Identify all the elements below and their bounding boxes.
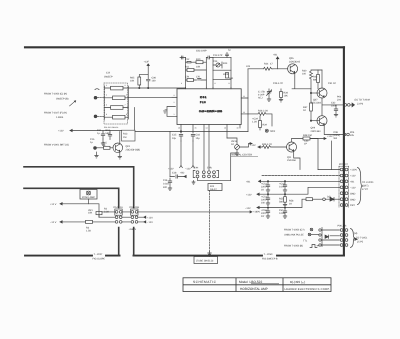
svg-text:150: 150 — [308, 134, 313, 137]
wire cluster to riser — [198, 153, 238, 181]
svg-text:+12V: +12V — [327, 135, 333, 138]
svg-text:680: 680 — [313, 79, 318, 82]
capacitor C32 — [334, 105, 338, 117]
switch S01 — [70, 101, 76, 106]
wire strip row2 — [262, 175, 340, 177]
resistor R array row1 — [105, 86, 129, 90]
svg-text:560: 560 — [279, 201, 284, 204]
svg-text:5: 5 — [203, 96, 204, 99]
svg-text:13: 13 — [224, 127, 226, 130]
arrow +12V — [180, 166, 183, 168]
svg-text:LEADER ELECTRONICS CORP.: LEADER ELECTRONICS CORP. — [285, 288, 331, 291]
svg-text:R29: R29 — [263, 124, 268, 127]
svg-text:−12 V: −12 V — [50, 221, 57, 224]
wire base rail — [248, 68, 264, 70]
connector out D — [344, 103, 355, 107]
capacitor C18 series — [170, 175, 184, 178]
cluster B left rail — [212, 57, 214, 87]
transistor Q07 — [311, 88, 327, 98]
wire Q09 emitter out — [324, 125, 343, 135]
svg-text:J7 P7: J7 P7 — [362, 188, 369, 191]
resistor R3 — [86, 220, 93, 223]
svg-text:1P: 1P — [333, 82, 336, 85]
svg-text:100P: 100P — [331, 105, 337, 108]
svg-text:SWEEP (B): SWEEP (B) — [56, 98, 69, 101]
resistor R10 — [196, 61, 203, 64]
resistor R30 zig — [310, 70, 323, 89]
wire: node row to cluster A — [128, 87, 185, 89]
svg-text:+B2: +B2 — [180, 172, 185, 175]
svg-text:FROM V-2001 BRT (G): FROM V-2001 BRT (G) — [44, 143, 69, 146]
trimmer VR1 — [96, 212, 102, 215]
svg-text:FIG SLOPE: FIG SLOPE — [93, 257, 106, 260]
svg-text:SWEEP: SWEEP — [104, 76, 113, 79]
svg-text:2: 2 — [106, 84, 107, 87]
wire bus +B1 row — [259, 180, 341, 182]
transistor Q05 — [288, 64, 298, 74]
svg-text:FROM T-2050 (B): FROM T-2050 (B) — [284, 245, 303, 248]
connector strip P2/J2 — [131, 209, 138, 223]
svg-text:9: 9 — [229, 82, 230, 85]
capacitor C16 — [191, 135, 195, 142]
svg-text:P07 J07: P07 J07 — [339, 163, 348, 166]
svg-text:1: 1 — [174, 113, 175, 116]
wire Q05 collector down — [292, 73, 311, 89]
resistor R48 — [303, 137, 310, 140]
svg-text:8: 8 — [106, 113, 107, 116]
svg-text:P06 J06: P06 J06 — [338, 225, 347, 228]
capacitor C11 — [108, 131, 112, 140]
strip pins bottom — [340, 229, 348, 247]
transistor Q01 — [113, 143, 123, 153]
wire strip row1 — [318, 169, 340, 171]
connector strip P1/J1 — [115, 209, 122, 223]
capacitor col C56 — [266, 208, 270, 219]
svg-text:1μ: 1μ — [228, 49, 231, 52]
svg-text:J5 P5: J5 P5 — [357, 241, 364, 244]
svg-text:1μ: 1μ — [97, 132, 100, 135]
svg-text:10K: 10K — [88, 212, 93, 215]
frame right line — [343, 47, 345, 255]
svg-text:1.2K: 1.2K — [252, 121, 257, 124]
bottom connector cluster — [308, 228, 319, 236]
svg-text:56K: 56K — [106, 132, 111, 135]
bracket T-2051 — [351, 229, 355, 248]
trimmer C14 — [213, 62, 222, 68]
svg-text:−12V: −12V — [245, 207, 251, 210]
wire Q01 emitter to ground — [118, 152, 122, 159]
svg-text:J05: J05 — [350, 134, 355, 137]
svg-text:R10: R10 — [196, 58, 201, 61]
svg-text:+120V: +120V — [350, 169, 357, 172]
wire +12V row — [60, 204, 99, 218]
wire VR13 wiper to +12V — [239, 144, 252, 148]
svg-text:C12: C12 — [185, 58, 190, 61]
svg-text:CRT: CRT — [350, 204, 355, 207]
wire lamp to rail — [88, 199, 90, 204]
svg-text:16: 16 — [178, 127, 180, 130]
wire Q07 collector up — [321, 70, 323, 88]
resistor R42 — [317, 70, 319, 89]
svg-text:C-10 = 120V/4 = 10%: C-10 = 120V/4 = 10% — [199, 110, 223, 113]
capacitor C03 bridge — [206, 56, 213, 59]
svg-text:14: 14 — [206, 127, 208, 130]
svg-text:+B1: +B1 — [273, 54, 278, 57]
+B node top — [139, 64, 149, 77]
CRT strip pins — [339, 166, 349, 207]
wire Q05 area : +B arrow — [276, 57, 279, 69]
resistor R37 — [310, 103, 313, 111]
svg-text:+12F: +12F — [144, 61, 150, 64]
svg-text:1W: 1W — [261, 202, 265, 205]
wire R30 node down — [310, 89, 312, 121]
svg-text:1.REG: 1.REG — [56, 116, 63, 119]
svg-text:R46 4.7K: R46 4.7K — [262, 143, 272, 146]
svg-text:UNBLANK PULSE: UNBLANK PULSE — [284, 234, 304, 237]
svg-text:−12V: −12V — [185, 168, 191, 171]
svg-text:+ 12V: + 12V — [147, 216, 154, 219]
svg-text:1P: 1P — [304, 143, 307, 146]
wire: array bus to IC — [128, 86, 177, 119]
junction dots buses — [267, 181, 268, 182]
resistor R11 — [187, 69, 194, 72]
svg-text:D51: D51 — [327, 196, 332, 199]
svg-text:AS-5?: AS-5? — [210, 188, 217, 191]
svg-text:P1B J1B: P1B J1B — [130, 206, 140, 209]
svg-text:HORIZONTAL AMP: HORIZONTAL AMP — [240, 287, 268, 291]
inner shield line A — [24, 167, 134, 256]
svg-text:0.01: 0.01 — [279, 186, 284, 189]
svg-text:5: 5 — [126, 94, 127, 97]
svg-text:+12V: +12V — [246, 194, 252, 197]
svg-text:2SC458-O(B): 2SC458-O(B) — [126, 149, 141, 152]
svg-text:1μ: 1μ — [90, 141, 93, 144]
svg-text:2SC458: 2SC458 — [287, 159, 296, 162]
svg-text:1K: 1K — [231, 143, 234, 146]
svg-text:4: 4 — [106, 94, 107, 97]
svg-text:+B1: +B1 — [246, 181, 251, 184]
svg-text:7: 7 — [125, 103, 126, 106]
svg-text:(H): (H) — [354, 232, 358, 235]
cluster box parts — [319, 228, 340, 247]
ground cluster — [192, 181, 195, 185]
svg-text:B(-)499 (₅⁠ ₁): B(-)499 (₅⁠ ₁) — [290, 280, 305, 284]
svg-text:4.7P: 4.7P — [278, 82, 283, 85]
svg-text:1K: 1K — [289, 203, 292, 206]
svg-text:8: 8 — [215, 82, 216, 85]
wire vertical x209 lower — [209, 124, 211, 126]
wire array to R13 — [134, 108, 136, 131]
svg-text:+12V: +12V — [168, 168, 174, 171]
svg-text:SCHEMATIC: SCHEMATIC — [193, 280, 217, 284]
svg-text:T - 2027: T - 2027 — [94, 253, 104, 256]
svg-text:T - 2050: T - 2050 — [264, 253, 274, 256]
svg-text:W4: W4 — [334, 137, 338, 140]
svg-text:10K: 10K — [196, 66, 201, 69]
capacitor col C52 — [266, 181, 270, 192]
svg-text:− 12V: − 12V — [147, 221, 154, 224]
wire unblank riser — [331, 141, 333, 170]
arrow -12V — [192, 166, 195, 168]
svg-text:1K: 1K — [103, 144, 106, 147]
resistor R14 — [226, 73, 229, 79]
wire rows to strip — [99, 212, 115, 217]
svg-text:R11: R11 — [185, 66, 190, 69]
wire totem mid node — [322, 98, 343, 116]
svg-text:1.5K: 1.5K — [86, 229, 91, 232]
svg-text:2: 2 — [174, 101, 175, 104]
resistor R24 zig — [264, 67, 274, 70]
svg-text:1K: 1K — [261, 189, 264, 192]
capacitor C05 stub — [180, 56, 186, 59]
svg-text:10: 10 — [237, 127, 239, 130]
svg-text:R26 2.2K: R26 2.2K — [258, 110, 268, 113]
svg-text:E?R: E?R — [207, 167, 212, 170]
svg-text:+180 V: +180 V — [129, 228, 137, 231]
bracket CRT — [358, 168, 363, 205]
svg-text:−12V: −12V — [350, 187, 356, 190]
pulse glyph — [310, 245, 317, 248]
svg-text:FROM T-2027 (F) (H): FROM T-2027 (F) (H) — [44, 111, 67, 114]
dashed line to tube shield — [209, 191, 211, 252]
wire pulse to cluster — [317, 245, 319, 247]
IC01 box — [177, 89, 241, 125]
svg-text:0.033: 0.033 — [279, 212, 286, 215]
resistor R46 zig — [258, 146, 287, 149]
capacitor C06 — [146, 75, 150, 88]
title block — [183, 278, 331, 292]
cluster A left rail — [185, 58, 187, 88]
svg-text:100: 100 — [152, 80, 157, 83]
svg-text:L03: L03 — [246, 65, 251, 68]
diode D51 — [325, 197, 340, 201]
capacitor col C54 — [266, 194, 270, 205]
svg-text:10μ: 10μ — [172, 137, 177, 140]
transistor Q09 — [310, 116, 327, 126]
svg-text:+12 V: +12 V — [50, 203, 57, 206]
capacitor col C57 — [283, 208, 287, 219]
ground left small — [95, 152, 99, 158]
svg-text:TP02: TP02 — [270, 130, 276, 133]
svg-text:2SC1364: 2SC1364 — [311, 102, 322, 105]
resistor R28 vert — [280, 92, 283, 98]
svg-text:1K: 1K — [303, 109, 306, 112]
svg-text:C.R: C.R — [106, 72, 110, 75]
svg-text:FROM T-2050 (C) (H): FROM T-2050 (C) (H) — [44, 93, 67, 96]
svg-text:C18: C18 — [172, 172, 177, 175]
test point TP — [265, 129, 268, 132]
capacitor C12 — [186, 62, 194, 63]
capacitor C31 — [101, 131, 105, 140]
wire Q11 collector net — [292, 139, 319, 170]
svg-text:GND: GND — [350, 192, 356, 195]
IC left pins — [172, 96, 177, 98]
capacitor C15 — [179, 135, 183, 142]
frame bottom line segments — [25, 255, 344, 257]
wire +12V feed left — [70, 130, 122, 132]
svg-text:+180V: +180V — [253, 211, 260, 214]
resistor R array row2 — [105, 96, 129, 100]
svg-text:C13 47P: C13 47P — [213, 54, 223, 57]
resistor array dashed box — [104, 83, 128, 124]
svg-text:P 1 0: P 1 0 — [200, 101, 206, 104]
trimmer cap C17B — [267, 89, 272, 102]
svg-text:27K: 27K — [185, 76, 190, 79]
wire Q11 emitter — [294, 151, 300, 169]
svg-text:C03 100P: C03 100P — [196, 50, 207, 53]
svg-text:330K: 330K — [223, 73, 229, 76]
svg-text:3: 3 — [174, 94, 175, 97]
resistor R12 — [187, 79, 194, 82]
svg-text:4: 4 — [181, 82, 182, 85]
svg-text:J04: J04 — [337, 99, 342, 102]
inner shield line B — [24, 188, 119, 255]
connector cluster P03/J03 — [193, 171, 218, 178]
svg-text:P1A J1A: P1A J1A — [114, 206, 124, 209]
resistor R05 — [138, 77, 141, 85]
connector BRT input — [94, 147, 97, 150]
resistor R array row3 — [105, 106, 129, 110]
wire: input dashed bus — [97, 98, 104, 117]
svg-text:(TUBE SHIELD): (TUBE SHIELD) — [196, 260, 213, 263]
svg-text:11: 11 — [243, 95, 245, 98]
svg-text:10K: 10K — [284, 95, 289, 98]
svg-text:9: 9 — [126, 113, 127, 116]
wire Q01 collector — [119, 132, 121, 145]
wire -12V row — [60, 221, 86, 223]
capacitor C22 1u — [226, 53, 229, 58]
svg-text:270: 270 — [196, 76, 201, 79]
resistor col R55 — [284, 197, 287, 203]
capacitor C16b to ground — [168, 178, 172, 188]
IC right pins — [241, 98, 248, 114]
svg-text:3: 3 — [125, 84, 126, 87]
connector from T-2027 — [94, 115, 97, 118]
wires between strips — [122, 212, 131, 222]
cluster B right rail — [230, 57, 232, 87]
transistor Q11 — [287, 142, 297, 152]
svg-text:TO T-2051: TO T-2051 — [356, 237, 368, 240]
svg-text:56K: 56K — [229, 77, 234, 80]
resistor R58 — [306, 198, 313, 201]
svg-text:C?H: C?H — [194, 167, 199, 170]
svg-text:TTL: TTL — [303, 240, 308, 243]
svg-text:POSI LAMP: POSI LAMP — [82, 196, 95, 199]
wire bus +12V row — [257, 187, 340, 194]
wire: pins to supplies — [181, 141, 193, 166]
wire strip2 out — [138, 212, 250, 222]
connector from T-2050 — [94, 89, 99, 99]
svg-text:NORMAL CENTER: NORMAL CENTER — [232, 154, 253, 157]
capacitor C continuing — [198, 79, 207, 81]
wire vertical right IC — [247, 69, 249, 132]
svg-text:AEJ: AEJ — [258, 97, 263, 100]
svg-text:R24: R24 — [264, 63, 269, 66]
svg-text:+12V: +12V — [58, 130, 64, 133]
svg-text:3.3K: 3.3K — [104, 210, 109, 213]
box F04 — [208, 184, 222, 191]
svg-text:C14: C14 — [213, 60, 218, 63]
resistor R29 vert box — [259, 121, 262, 128]
svg-text:+B1: +B1 — [350, 181, 355, 184]
svg-text:GND: GND — [350, 198, 356, 201]
resistor R array row4 — [105, 115, 129, 119]
wire bus -12V row — [257, 199, 306, 207]
IC top pins — [186, 88, 231, 89]
wire long collector line — [135, 131, 248, 133]
svg-text:+12V: +12V — [350, 175, 356, 178]
IC bottom pins — [181, 125, 240, 171]
svg-text:10K: 10K — [130, 80, 135, 83]
cluster A right rail — [205, 58, 207, 88]
svg-text:+12V: +12V — [250, 144, 256, 147]
resistor R26 zig feedback — [248, 112, 272, 126]
resistor R15 — [104, 146, 111, 149]
capacitor col C42 — [283, 181, 287, 192]
trimmer VR13 — [227, 138, 237, 145]
frame top line — [25, 46, 344, 48]
wire mid vertical to cap — [169, 132, 171, 177]
svg-text:FROM T-2050 (C?): FROM T-2050 (C?) — [284, 229, 305, 232]
svg-text:J3 P3: J3 P3 — [357, 103, 364, 106]
svg-text:2SC1364: 2SC1364 — [311, 130, 322, 133]
svg-text:Model LBO-522: Model LBO-522 — [239, 280, 262, 284]
svg-text:FIG SWEEP B: FIG SWEEP B — [262, 257, 278, 260]
svg-text:R14: R14 — [223, 62, 228, 65]
svg-text:10μ: 10μ — [196, 137, 201, 140]
svg-text:(D) TO T-2049: (D) TO T-2049 — [355, 99, 371, 102]
resistor R13 module — [122, 130, 136, 141]
tube shield box — [194, 257, 218, 264]
svg-text:15: 15 — [195, 127, 197, 130]
lamp box — [80, 190, 97, 200]
svg-text:47: 47 — [270, 63, 273, 66]
svg-text:2SA563-O: 2SA563-O — [289, 61, 300, 64]
connector out E — [343, 133, 349, 136]
svg-text:12: 12 — [243, 111, 245, 114]
svg-text:DY: DY — [261, 215, 265, 218]
svg-text:400: 400 — [163, 186, 168, 189]
svg-text:1M: 1M — [123, 136, 126, 139]
svg-text:100: 100 — [302, 73, 307, 76]
svg-text:6: 6 — [106, 103, 107, 106]
